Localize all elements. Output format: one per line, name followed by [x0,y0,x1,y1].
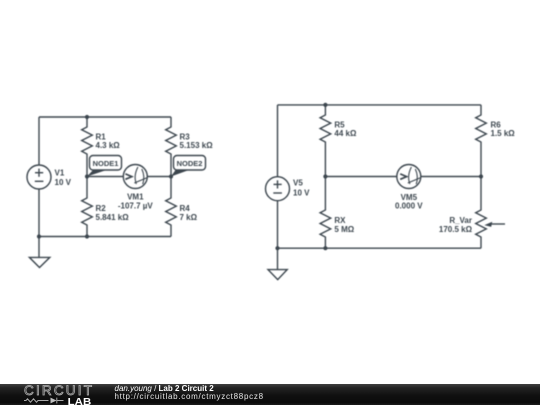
junction dot R1 top [85,115,89,119]
resistor R2 [82,177,129,237]
svg-text:VM1: VM1 [127,192,144,201]
footer title line [115,384,215,393]
resistor RX [320,177,355,249]
junction dot node2 [169,174,173,178]
voltage source V5 [266,177,311,201]
svg-text:4.3 kΩ: 4.3 kΩ [96,141,121,150]
footer bar [0,384,540,405]
voltmeter VM5 [395,165,423,211]
CircuitLab logo resistor-diode line [24,398,64,404]
wire top-left horizontal [39,116,171,118]
node NODE2 flag [171,156,206,177]
svg-text:RX: RX [334,216,346,225]
svg-text:V5: V5 [293,179,303,188]
voltmeter VM1 [118,165,154,211]
wire VM1 to node2 [147,176,171,178]
svg-text:5.153 kΩ: 5.153 kΩ [180,141,214,150]
svg-text:5 MΩ: 5 MΩ [334,225,354,234]
junction dot ground-right [275,246,279,250]
svg-text:LAB: LAB [68,397,92,405]
svg-text:http://circuitlab.com/ctmyzct8: http://circuitlab.com/ctmyzct88pcz8 [115,392,264,401]
svg-text:V1: V1 [55,169,65,178]
node NODE1 flag [87,156,122,177]
svg-text:R1: R1 [96,132,107,141]
wire left rail lower [38,189,40,237]
junction dot ground-left [37,234,41,238]
voltage source V1 [27,165,72,189]
svg-text:10 V: 10 V [293,188,310,197]
svg-text:R6: R6 [491,120,502,129]
junction dot R6-RVar node [479,174,483,178]
svg-text:NODE2: NODE2 [177,159,203,168]
svg-text:10 V: 10 V [55,178,72,187]
svg-text:-107.7 µV: -107.7 µV [118,201,154,210]
junction dot RX bottom [323,246,327,250]
svg-text:7 kΩ: 7 kΩ [180,213,198,222]
resistor R1 [82,117,121,177]
R_Var wiper arrow [484,222,505,227]
wire top-right horizontal [278,104,482,106]
svg-text:NODE1: NODE1 [93,159,119,168]
resistor R5 [320,105,357,177]
svg-text:R3: R3 [180,132,191,141]
junction dot R5-RX node [323,174,327,178]
wire right-circuit left rail upper [277,105,279,177]
svg-text:5.841 kΩ: 5.841 kΩ [96,213,130,222]
svg-text:1.5 kΩ: 1.5 kΩ [491,129,516,138]
footer url line [115,392,264,401]
resistor R_Var (variable) [439,177,486,249]
ground left [29,237,49,268]
wire left rail upper [38,117,40,165]
svg-text:R5: R5 [334,120,345,129]
resistor R3 [166,117,213,177]
svg-text:0.000 V: 0.000 V [395,201,423,210]
junction dot R2 bottom [85,234,89,238]
svg-text:R_Var: R_Var [449,216,472,225]
svg-text:R4: R4 [180,204,191,213]
CircuitLab logo wordmark CIRCUIT [24,383,94,398]
wire right-circuit left rail lower [277,201,279,249]
svg-text:R2: R2 [96,204,107,213]
wire bottom-right horizontal [278,247,482,249]
wire VM5 to R6 node [421,176,481,178]
ground right [268,248,287,279]
wire R5 node to VM5 [325,176,396,178]
svg-text:44 kΩ: 44 kΩ [334,129,357,138]
wire bottom-left horizontal [39,236,171,238]
svg-text:170.5 kΩ: 170.5 kΩ [439,225,473,234]
junction dot R5 top [323,103,327,107]
junction dot node1 [85,174,89,178]
resistor R4 [166,177,198,237]
resistor R6 [476,105,516,177]
CircuitLab logo LAB [68,397,92,408]
wire node1 to VM1 [87,176,123,178]
